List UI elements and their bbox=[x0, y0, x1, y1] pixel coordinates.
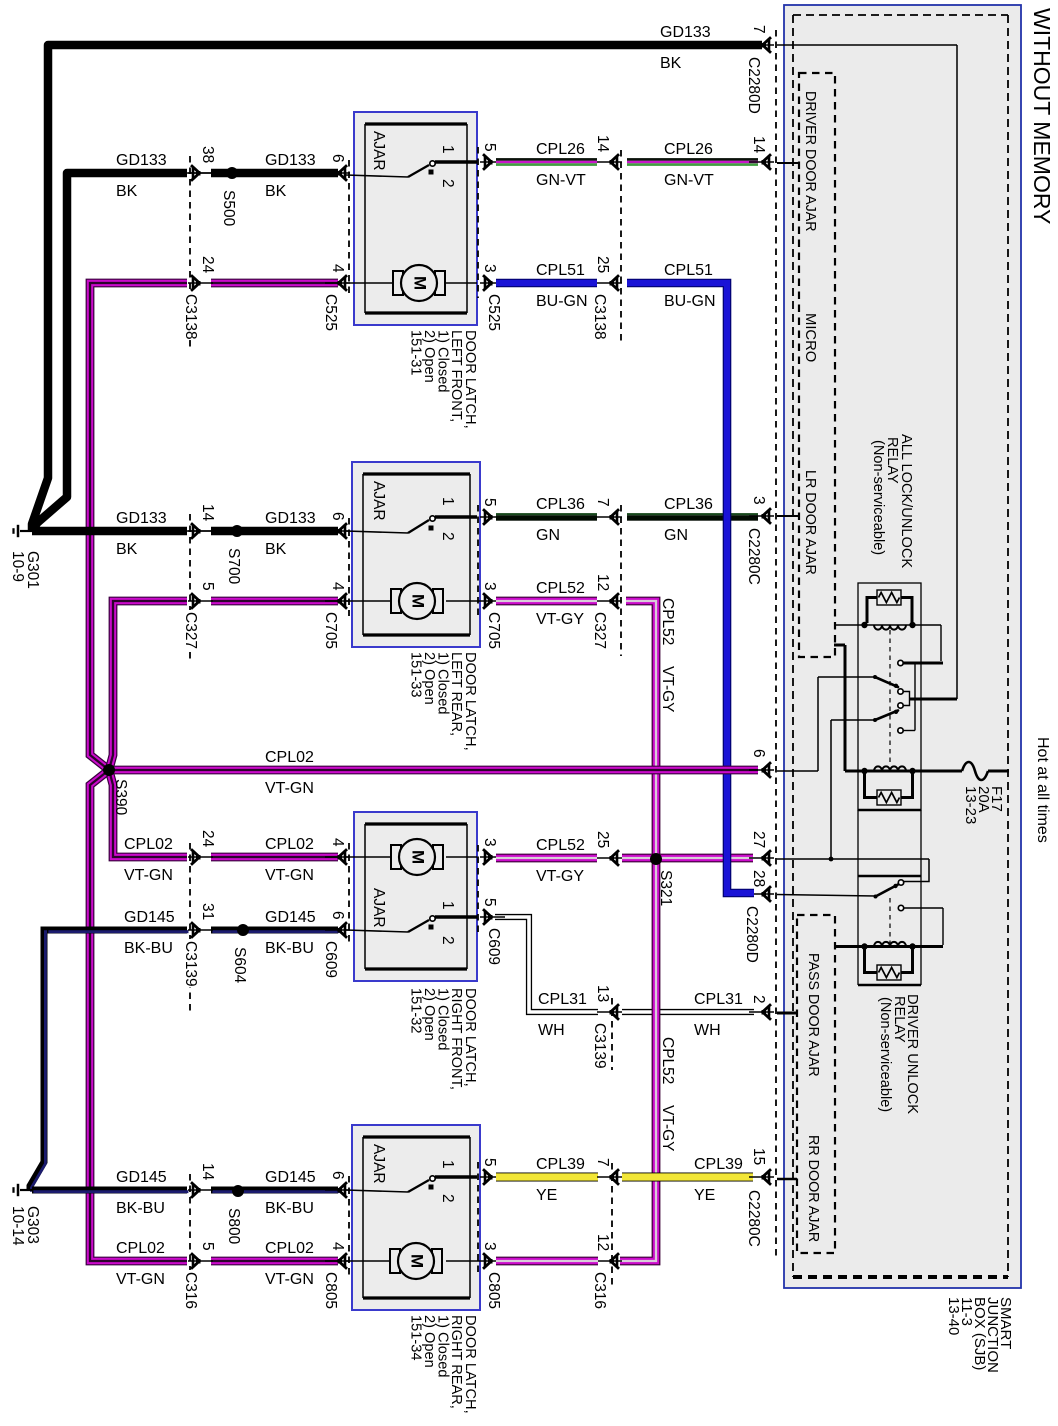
svg-text:14: 14 bbox=[750, 136, 767, 154]
svg-text:CPL39: CPL39 bbox=[536, 1156, 585, 1173]
svg-text:1: 1 bbox=[439, 1160, 456, 1169]
svg-text:GD133: GD133 bbox=[116, 152, 167, 169]
svg-text:2: 2 bbox=[439, 936, 456, 945]
svg-text:CPL02: CPL02 bbox=[265, 1240, 314, 1257]
svg-text:4: 4 bbox=[329, 582, 346, 591]
svg-text:C2280C: C2280C bbox=[745, 1190, 762, 1247]
svg-text:DRIVER DOOR AJAR: DRIVER DOOR AJAR bbox=[802, 91, 818, 232]
svg-text:6: 6 bbox=[329, 154, 346, 163]
svg-text:BK: BK bbox=[116, 183, 138, 200]
svg-text:VT-GN: VT-GN bbox=[116, 1271, 165, 1288]
svg-text:6: 6 bbox=[329, 512, 346, 521]
svg-text:3: 3 bbox=[750, 496, 767, 505]
svg-text:27: 27 bbox=[750, 831, 767, 848]
svg-text:CPL31: CPL31 bbox=[694, 991, 743, 1008]
svg-text:C705: C705 bbox=[322, 612, 339, 649]
svg-text:C805: C805 bbox=[322, 1272, 339, 1309]
svg-text:4: 4 bbox=[329, 1242, 346, 1251]
svg-text:BK-BU: BK-BU bbox=[265, 1200, 314, 1217]
svg-text:GN: GN bbox=[664, 527, 688, 544]
svg-text:M: M bbox=[411, 276, 430, 290]
svg-text:S500: S500 bbox=[220, 190, 237, 227]
svg-text:GD145: GD145 bbox=[265, 1169, 316, 1186]
svg-text:GN-VT: GN-VT bbox=[664, 172, 714, 189]
svg-text:Hot at all times: Hot at all times bbox=[1034, 737, 1051, 843]
svg-text:12: 12 bbox=[594, 1234, 611, 1251]
svg-text:BK-BU: BK-BU bbox=[265, 940, 314, 957]
svg-text:VT-GN: VT-GN bbox=[265, 780, 314, 797]
svg-text:5: 5 bbox=[481, 498, 498, 507]
svg-text:C2280D: C2280D bbox=[745, 57, 762, 114]
svg-text:7: 7 bbox=[594, 498, 611, 507]
svg-text:C316: C316 bbox=[591, 1272, 608, 1309]
svg-text:2: 2 bbox=[439, 179, 456, 188]
svg-text:14: 14 bbox=[594, 135, 611, 153]
svg-text:LR DOOR AJAR: LR DOOR AJAR bbox=[802, 470, 818, 575]
svg-text:C3138: C3138 bbox=[182, 294, 199, 340]
svg-text:S604: S604 bbox=[231, 947, 248, 984]
svg-text:M: M bbox=[409, 850, 428, 864]
svg-text:CPL02: CPL02 bbox=[265, 836, 314, 853]
svg-text:GN-VT: GN-VT bbox=[536, 172, 586, 189]
svg-text:151-34: 151-34 bbox=[408, 1315, 424, 1360]
svg-text:25: 25 bbox=[594, 256, 611, 273]
svg-text:CPL51: CPL51 bbox=[536, 262, 585, 279]
svg-text:25: 25 bbox=[594, 831, 611, 848]
svg-text:GD133: GD133 bbox=[660, 24, 711, 41]
svg-text:RR DOOR AJAR: RR DOOR AJAR bbox=[805, 1135, 821, 1242]
svg-text:151-33: 151-33 bbox=[408, 652, 424, 697]
svg-text:10-14: 10-14 bbox=[9, 1206, 26, 1246]
svg-text:WITHOUT MEMORY: WITHOUT MEMORY bbox=[1029, 8, 1055, 224]
svg-text:VT-GN: VT-GN bbox=[124, 867, 173, 884]
svg-text:S390: S390 bbox=[112, 779, 129, 816]
svg-text:6: 6 bbox=[329, 911, 346, 920]
svg-text:GD133: GD133 bbox=[265, 510, 316, 527]
svg-text:C705: C705 bbox=[485, 612, 502, 649]
svg-text:GD145: GD145 bbox=[265, 909, 316, 926]
svg-text:151-32: 151-32 bbox=[408, 988, 424, 1033]
svg-text:15: 15 bbox=[750, 1148, 767, 1165]
svg-text:BK-BU: BK-BU bbox=[116, 1200, 165, 1217]
svg-text:MICRO: MICRO bbox=[802, 313, 818, 362]
svg-text:C2280D: C2280D bbox=[743, 906, 760, 963]
svg-text:5: 5 bbox=[481, 1158, 498, 1167]
svg-text:10-9: 10-9 bbox=[9, 551, 26, 582]
svg-text:BU-GN: BU-GN bbox=[664, 293, 716, 310]
svg-text:2: 2 bbox=[439, 532, 456, 541]
svg-text:CPL02: CPL02 bbox=[116, 1240, 165, 1257]
svg-text:BK: BK bbox=[265, 541, 287, 558]
svg-text:C3139: C3139 bbox=[182, 941, 199, 987]
svg-text:VT-GN: VT-GN bbox=[265, 1271, 314, 1288]
svg-text:M: M bbox=[409, 594, 428, 608]
svg-text:M: M bbox=[408, 1254, 427, 1268]
svg-text:BK: BK bbox=[265, 183, 287, 200]
svg-text:VT-GY: VT-GY bbox=[659, 666, 676, 713]
svg-text:C525: C525 bbox=[322, 294, 339, 331]
svg-text:7: 7 bbox=[750, 25, 767, 34]
svg-text:VT-GY: VT-GY bbox=[536, 868, 584, 885]
svg-text:VT-GY: VT-GY bbox=[659, 1105, 676, 1152]
svg-text:CPL52: CPL52 bbox=[659, 598, 676, 645]
svg-text:CPL02: CPL02 bbox=[124, 836, 173, 853]
svg-text:C316: C316 bbox=[182, 1272, 199, 1309]
svg-text:5: 5 bbox=[481, 898, 498, 907]
svg-text:GN: GN bbox=[536, 527, 560, 544]
svg-text:CPL31: CPL31 bbox=[538, 991, 587, 1008]
svg-text:13: 13 bbox=[594, 985, 611, 1002]
svg-text:BU-GN: BU-GN bbox=[536, 293, 588, 310]
svg-text:CPL39: CPL39 bbox=[694, 1156, 743, 1173]
svg-text:CPL36: CPL36 bbox=[664, 496, 713, 513]
svg-text:WH: WH bbox=[538, 1022, 565, 1039]
svg-text:C327: C327 bbox=[182, 612, 199, 649]
svg-text:C609: C609 bbox=[322, 941, 339, 978]
svg-text:C2280C: C2280C bbox=[745, 528, 762, 585]
svg-text:1: 1 bbox=[439, 145, 456, 154]
svg-text:S800: S800 bbox=[225, 1208, 242, 1245]
svg-text:WH: WH bbox=[694, 1022, 721, 1039]
svg-text:3: 3 bbox=[481, 264, 498, 273]
svg-text:24: 24 bbox=[199, 256, 216, 274]
svg-text:7: 7 bbox=[594, 1158, 611, 1167]
svg-text:3: 3 bbox=[481, 838, 498, 847]
svg-text:151-31: 151-31 bbox=[408, 330, 424, 375]
svg-text:CPL26: CPL26 bbox=[536, 141, 585, 158]
svg-text:YE: YE bbox=[536, 1187, 557, 1204]
svg-text:BK: BK bbox=[660, 55, 682, 72]
svg-text:YE: YE bbox=[694, 1187, 715, 1204]
svg-text:5: 5 bbox=[199, 582, 216, 591]
svg-text:BK-BU: BK-BU bbox=[124, 940, 173, 957]
svg-text:GD145: GD145 bbox=[124, 909, 175, 926]
svg-text:28: 28 bbox=[750, 870, 767, 887]
svg-text:GD133: GD133 bbox=[116, 510, 167, 527]
svg-text:12: 12 bbox=[594, 574, 611, 591]
svg-text:AJAR: AJAR bbox=[370, 131, 387, 171]
svg-text:S700: S700 bbox=[225, 548, 242, 585]
svg-text:14: 14 bbox=[199, 504, 216, 522]
svg-text:BK: BK bbox=[116, 541, 138, 558]
svg-text:24: 24 bbox=[199, 830, 216, 848]
svg-text:C805: C805 bbox=[485, 1272, 502, 1309]
svg-text:S321: S321 bbox=[657, 870, 674, 906]
svg-text:(Non-serviceable): (Non-serviceable) bbox=[870, 440, 886, 555]
svg-text:VT-GN: VT-GN bbox=[265, 867, 314, 884]
svg-text:C3138: C3138 bbox=[591, 294, 608, 340]
svg-text:13-23: 13-23 bbox=[962, 786, 979, 824]
svg-text:CPL52: CPL52 bbox=[659, 1037, 676, 1084]
svg-text:C327: C327 bbox=[591, 612, 608, 649]
svg-text:VT-GY: VT-GY bbox=[536, 611, 584, 628]
svg-text:CPL52: CPL52 bbox=[536, 837, 585, 854]
svg-text:CPL51: CPL51 bbox=[664, 262, 713, 279]
svg-text:14: 14 bbox=[199, 1163, 216, 1181]
svg-text:2: 2 bbox=[439, 1194, 456, 1203]
svg-text:4: 4 bbox=[329, 838, 346, 847]
svg-text:GD145: GD145 bbox=[116, 1169, 167, 1186]
svg-text:2: 2 bbox=[750, 995, 767, 1004]
svg-text:31: 31 bbox=[199, 903, 216, 920]
svg-text:AJAR: AJAR bbox=[370, 481, 387, 521]
svg-text:4: 4 bbox=[329, 264, 346, 273]
svg-text:GD133: GD133 bbox=[265, 152, 316, 169]
svg-text:C525: C525 bbox=[485, 294, 502, 331]
svg-text:CPL26: CPL26 bbox=[664, 141, 713, 158]
svg-text:6: 6 bbox=[750, 749, 767, 758]
svg-text:C609: C609 bbox=[485, 928, 502, 965]
svg-text:C3139: C3139 bbox=[591, 1023, 608, 1069]
svg-text:3: 3 bbox=[481, 582, 498, 591]
svg-text:6: 6 bbox=[329, 1171, 346, 1180]
svg-text:1: 1 bbox=[439, 497, 456, 506]
svg-text:1: 1 bbox=[439, 901, 456, 910]
svg-text:CPL02: CPL02 bbox=[265, 749, 314, 766]
svg-text:(Non-serviceable): (Non-serviceable) bbox=[877, 997, 893, 1112]
svg-text:5: 5 bbox=[481, 143, 498, 152]
svg-text:AJAR: AJAR bbox=[370, 1144, 387, 1184]
svg-text:5: 5 bbox=[199, 1242, 216, 1251]
svg-text:CPL36: CPL36 bbox=[536, 496, 585, 513]
svg-text:AJAR: AJAR bbox=[370, 888, 387, 928]
svg-text:38: 38 bbox=[199, 146, 216, 163]
svg-text:13-40: 13-40 bbox=[945, 1297, 962, 1335]
svg-text:PASS DOOR AJAR: PASS DOOR AJAR bbox=[805, 953, 821, 1077]
svg-text:3: 3 bbox=[481, 1242, 498, 1251]
svg-text:CPL52: CPL52 bbox=[536, 580, 585, 597]
